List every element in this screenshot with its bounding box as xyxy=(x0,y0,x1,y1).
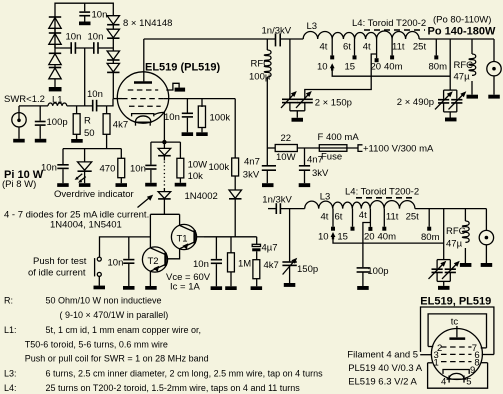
svg-text:40m: 40m xyxy=(384,62,403,73)
ground under 150p bottom xyxy=(284,283,296,287)
svg-text:L4: Toroid T200-2: L4: Toroid T200-2 xyxy=(345,187,419,198)
svg-text:6t: 6t xyxy=(343,42,351,53)
capacitor 100p xyxy=(35,106,46,139)
svg-text:22: 22 xyxy=(281,133,292,144)
svg-text:50: 50 xyxy=(84,128,95,139)
svg-text:4k7: 4k7 xyxy=(264,260,279,271)
tap 20 stub and square xyxy=(375,39,379,62)
svg-text:11t: 11t xyxy=(386,212,399,223)
diode chain left D1 (up) xyxy=(49,17,61,33)
choke RFC 100u xyxy=(264,39,271,148)
svg-text:T2: T2 xyxy=(148,256,159,267)
wire cathode tap xyxy=(155,112,165,142)
wire base node row xyxy=(204,236,257,238)
wire pin7 to inner box xyxy=(481,347,487,349)
capacitor 10n overdrive xyxy=(57,149,68,184)
svg-text:EL519, PL519: EL519, PL519 xyxy=(420,296,491,308)
svg-text:L1: L1 xyxy=(52,95,63,106)
ground under 100k g2 xyxy=(196,132,208,136)
LED overdrive indicator xyxy=(75,149,92,184)
svg-text:100µ: 100µ xyxy=(249,72,271,83)
tube grid g3 dashes xyxy=(129,105,161,107)
wire switch to collector rail xyxy=(100,237,151,257)
tube beam plate to ground step xyxy=(166,83,179,90)
ground under 4n7 right xyxy=(299,183,311,187)
wire top rail xyxy=(55,3,113,48)
wire T1 emitter to T2 base xyxy=(167,249,180,259)
resistor 1M xyxy=(228,237,235,286)
svg-text:of idle current: of idle current xyxy=(28,267,86,278)
pinout grid dashes row 3 xyxy=(441,361,472,363)
svg-text:L3:: L3: xyxy=(4,369,17,379)
wire series cap row left xyxy=(55,47,71,49)
svg-text:1: 1 xyxy=(434,357,439,368)
ground at tube beam plate xyxy=(175,88,186,92)
svg-text:10: 10 xyxy=(318,232,329,243)
wire collector rail xyxy=(150,213,179,215)
inductor L3/L4 top coil xyxy=(303,31,419,39)
capacitor 10n base node xyxy=(211,237,222,286)
transistor T1 xyxy=(171,224,196,249)
svg-text:Push for test: Push for test xyxy=(33,256,87,267)
ground under 100p xyxy=(35,139,47,143)
svg-text:4µ7: 4µ7 xyxy=(262,243,278,254)
diode idle chain D10 xyxy=(158,188,171,214)
svg-text:20: 20 xyxy=(364,232,375,243)
tap 40m stub and square xyxy=(390,39,394,59)
ground under 490p bottom xyxy=(438,286,450,290)
wire pin8 to lower box xyxy=(482,362,488,364)
resistor 22 supply xyxy=(267,145,319,152)
ground under g2 10n xyxy=(182,132,194,136)
capacitor 1n/3kV series top xyxy=(276,33,304,46)
ground under RFC 47u bottom xyxy=(460,263,472,267)
svg-text:5: 5 xyxy=(466,377,471,388)
ground under output connector top xyxy=(488,95,500,99)
diode chain right D8 (down) xyxy=(107,63,119,98)
variable capacitor 150p bottom xyxy=(282,209,297,283)
svg-text:Filament 4 and 5: Filament 4 and 5 xyxy=(347,350,418,361)
tap 80m stub and square xyxy=(434,39,438,59)
svg-text:10W: 10W xyxy=(188,160,208,171)
svg-text:25 turns on T200-2 toroid, 1.5: 25 turns on T200-2 toroid, 1.5-2mm wire,… xyxy=(46,383,301,393)
svg-text:1N4002: 1N4002 xyxy=(185,191,218,202)
inductor L3/L4 bottom coil xyxy=(305,201,415,209)
svg-text:T1: T1 xyxy=(177,234,188,245)
wire T2 emitter to ground xyxy=(149,271,151,286)
pinout cathode dome and filament pins 4,5 xyxy=(447,373,467,382)
svg-text:100k: 100k xyxy=(210,113,231,124)
wire anode line xyxy=(144,38,276,40)
ground under 470 xyxy=(116,183,128,187)
svg-text:47µ: 47µ xyxy=(446,239,463,250)
wire pin3 to outer box xyxy=(420,354,432,356)
variable capacitor 2x490p bottom xyxy=(429,209,460,286)
wire pin1 to lower box xyxy=(428,362,433,364)
svg-text:1n/3kV: 1n/3kV xyxy=(262,26,292,37)
ground under 100p bottom xyxy=(357,286,369,290)
ground under left diode chain xyxy=(49,87,62,91)
svg-text:(Po 80-110W): (Po 80-110W) xyxy=(433,15,491,26)
svg-text:10: 10 xyxy=(317,62,328,73)
tube beam plate bracket xyxy=(132,114,154,117)
svg-text:50 Ohm/10 W non inductieve: 50 Ohm/10 W non inductieve xyxy=(46,296,162,306)
svg-text:100p: 100p xyxy=(47,117,68,128)
wire overdrive row xyxy=(63,148,121,150)
svg-text:10n: 10n xyxy=(87,89,103,100)
wire T1 base lead xyxy=(196,236,204,238)
wire 150p pair to ground xyxy=(290,111,305,118)
svg-text:20: 20 xyxy=(371,62,382,73)
svg-text:RFC: RFC xyxy=(446,226,466,237)
svg-text:RFC: RFC xyxy=(454,60,474,71)
fuse F 400mA xyxy=(319,145,357,152)
svg-text:2 × 490p: 2 × 490p xyxy=(397,97,434,108)
capacitor 4n7 3kV right xyxy=(299,148,310,183)
svg-text:L1:: L1: xyxy=(4,325,17,335)
svg-text:2 × 150p: 2 × 150p xyxy=(315,98,352,109)
svg-text:80m: 80m xyxy=(429,62,448,73)
svg-text:1N4004, 1N5401: 1N4004, 1N5401 xyxy=(50,220,122,231)
tap 15 bottom stub and square xyxy=(351,209,355,231)
ground under 490p xyxy=(445,118,457,122)
toroid dashes bottom xyxy=(356,197,413,199)
wire selector from tap 20 bottom to 100p xyxy=(363,223,371,268)
svg-text:(Pi 8 W): (Pi 8 W) xyxy=(2,179,36,190)
diode chain left D3 (up) xyxy=(49,53,61,67)
svg-text:4n7: 4n7 xyxy=(307,155,323,166)
svg-text:4: 4 xyxy=(441,377,446,388)
pinout lower box xyxy=(428,363,488,389)
ground under 4k7 emitter xyxy=(251,286,263,290)
choke RFC 47u top xyxy=(469,39,476,95)
pinout anode bar xyxy=(449,337,465,340)
tap 15 stub and square xyxy=(353,39,357,59)
svg-text:Fuse: Fuse xyxy=(321,152,342,163)
svg-text:10n: 10n xyxy=(164,112,180,123)
capacitor 10n series row left xyxy=(71,42,75,54)
capacitor 10n series row right xyxy=(94,42,98,54)
plug arrow at tap 10 bottom xyxy=(331,232,444,243)
resistor 10W 10k xyxy=(177,142,184,183)
svg-text:47µ: 47µ xyxy=(454,72,471,83)
capacitor 10n series on main line xyxy=(93,100,107,112)
variable capacitor 150p A xyxy=(281,39,298,111)
resistor R 50 xyxy=(73,106,80,139)
switch S1 push for test xyxy=(95,257,102,276)
svg-text:11t: 11t xyxy=(392,42,405,53)
svg-text:3kV: 3kV xyxy=(243,170,260,181)
ground under 4n7 left xyxy=(262,183,274,187)
pinout grid dashes row 2 xyxy=(441,353,472,355)
ground under output connector bottom xyxy=(481,263,493,267)
resistor 4k7 emitter xyxy=(253,260,260,287)
svg-text:SWR<1.2: SWR<1.2 xyxy=(4,94,45,105)
svg-text:6 turns, 2.5 cm inner diameter: 6 turns, 2.5 cm inner diameter, 2 cm lon… xyxy=(46,369,324,379)
svg-text:+1100 V/300 mA: +1100 V/300 mA xyxy=(363,143,434,154)
svg-text:15: 15 xyxy=(337,232,348,243)
connector output bottom xyxy=(479,209,493,263)
svg-text:1n/3kV: 1n/3kV xyxy=(262,195,292,206)
svg-text:150p: 150p xyxy=(297,264,318,275)
ground under input connector xyxy=(13,139,25,143)
tube grid g1 dashes xyxy=(122,98,164,100)
svg-text:3kV: 3kV xyxy=(312,168,329,179)
svg-text:L4:: L4: xyxy=(4,383,17,393)
pinout outer box xyxy=(421,307,494,355)
svg-text:25t: 25t xyxy=(406,212,420,223)
variable capacitor 2x490p top xyxy=(435,39,466,118)
svg-text:Po 140-180W: Po 140-180W xyxy=(428,26,496,38)
tube cathode dome xyxy=(135,116,152,126)
ground under cathode 10n xyxy=(145,183,157,187)
svg-text:10n: 10n xyxy=(108,258,124,269)
svg-text:1M: 1M xyxy=(238,259,251,270)
svg-text:tc: tc xyxy=(451,316,459,327)
diode chain right D6 (down) xyxy=(107,29,119,51)
wire main line to grid riser xyxy=(107,99,113,106)
tube anode plate bar xyxy=(134,81,152,84)
tube envelope pinout xyxy=(431,329,482,380)
tap 10 stub and square xyxy=(330,39,334,59)
svg-text:Push or pull coil for SWR = 1: Push or pull coil for SWR = 1 on 28 MHz … xyxy=(25,354,209,364)
svg-text:8 × 1N4148: 8 × 1N4148 xyxy=(123,18,172,29)
svg-text:15: 15 xyxy=(345,62,356,73)
svg-text:80m: 80m xyxy=(421,232,440,243)
choke RFC 47u bottom xyxy=(462,209,469,263)
capacitor 100p bottom xyxy=(357,268,370,286)
wire dotted idle chain continuation xyxy=(163,162,165,189)
transistor T2 xyxy=(142,247,167,272)
tap 20 bottom stub and square xyxy=(368,209,372,231)
svg-text:10n: 10n xyxy=(66,32,82,43)
plug arrow at tap 10 xyxy=(330,63,451,76)
svg-text:PL519 40 V/0.3 A: PL519 40 V/0.3 A xyxy=(348,363,423,374)
svg-text:10n: 10n xyxy=(41,163,57,174)
wire grid entry xyxy=(113,98,122,100)
resistor 4k7 grid xyxy=(103,106,110,149)
svg-text:EL519 6.3 V/2 A: EL519 6.3 V/2 A xyxy=(348,376,417,387)
diode 1N4002 xyxy=(229,190,242,237)
svg-text:10n: 10n xyxy=(193,259,209,270)
capacitor 10n at switch xyxy=(123,237,134,286)
svg-text:4n7: 4n7 xyxy=(244,157,260,168)
pinout top cap lead xyxy=(456,326,458,337)
ground under 1M xyxy=(225,286,237,290)
svg-text:T50-6 toroid, 5-6 turns, 0.6 m: T50-6 toroid, 5-6 turns, 0.6 mm wire xyxy=(25,340,168,350)
ground under LED xyxy=(79,183,91,187)
wire bleeder to diode xyxy=(234,176,236,190)
ground under R50 xyxy=(71,139,83,143)
svg-text:R: R xyxy=(84,116,91,127)
svg-text:5t, 1 cm id, 1 mm enam copper: 5t, 1 cm id, 1 mm enam copper wire or, xyxy=(46,325,202,335)
ground under top 10n xyxy=(79,22,91,26)
svg-text:Overdrive indicator: Overdrive indicator xyxy=(54,189,134,200)
ground under switch xyxy=(94,286,106,290)
wire pin2 to inner box xyxy=(428,346,433,348)
svg-text:470: 470 xyxy=(100,164,116,175)
tap 10 bottom stub and square xyxy=(331,209,335,231)
wire bottom line after coil xyxy=(415,208,487,210)
svg-text:L4: Toroid T200-2: L4: Toroid T200-2 xyxy=(352,18,426,29)
pinout grid dashes row 1 xyxy=(441,346,472,348)
diode chain left D4 (up) xyxy=(49,68,61,88)
node cathode junction xyxy=(162,140,166,144)
capacitor 4n7 3kV left xyxy=(262,148,276,183)
wire main line L1 to cap xyxy=(67,105,93,107)
wire clamp mid tap to main line xyxy=(84,48,86,106)
svg-text:4t: 4t xyxy=(320,42,328,53)
ground under switch 10n xyxy=(123,286,135,290)
svg-text:10n: 10n xyxy=(130,164,146,175)
svg-text:6t: 6t xyxy=(335,212,343,223)
svg-text:40m: 40m xyxy=(378,232,397,243)
wire pin6 to outer box xyxy=(482,354,494,356)
svg-text:10k: 10k xyxy=(188,171,204,182)
svg-text:4t: 4t xyxy=(321,212,329,223)
ground under 10n overdrive xyxy=(57,183,68,187)
wire T1 collector lead xyxy=(179,214,181,225)
ground under RFC 47u top xyxy=(467,95,479,99)
tube anode top cap wire xyxy=(143,39,145,81)
variable capacitor 150p B xyxy=(296,91,313,111)
svg-text:R:: R: xyxy=(4,296,13,306)
capacitor 10n top middle xyxy=(79,3,90,21)
connector +1100V plug xyxy=(358,145,363,152)
connector J1 input xyxy=(12,106,26,139)
wire selector from tap 20 to 150p xyxy=(305,54,377,99)
toroid dashes top xyxy=(364,29,425,31)
wire g2 line right xyxy=(164,98,235,100)
svg-text:100k: 100k xyxy=(209,162,230,173)
capacitor 10n g2 xyxy=(182,99,193,133)
svg-text:10n: 10n xyxy=(92,10,108,21)
resistor 100k g2 xyxy=(198,99,205,133)
wire main input line xyxy=(19,105,48,107)
svg-text:100p: 100p xyxy=(367,266,388,277)
wire T2 collector lead xyxy=(149,214,151,247)
pinout inner box xyxy=(428,314,486,348)
svg-text:10n: 10n xyxy=(88,32,104,43)
diode chain right D5 (down) xyxy=(107,16,119,30)
svg-text:4k7: 4k7 xyxy=(113,120,128,131)
diode idle chain D9 xyxy=(158,142,171,160)
wire cathode row xyxy=(151,141,181,143)
svg-text:10W: 10W xyxy=(276,152,296,163)
svg-text:25t: 25t xyxy=(413,42,427,53)
svg-text:RFC: RFC xyxy=(251,59,271,70)
tube V1 envelope xyxy=(117,72,168,123)
arrow pointing at idle diodes xyxy=(138,195,154,208)
svg-text:Ic = 1A: Ic = 1A xyxy=(170,282,200,293)
capacitor 10n cathode xyxy=(145,142,156,183)
wire switch to ground xyxy=(98,276,100,285)
svg-text:4t: 4t xyxy=(359,210,367,221)
capacitor 4u7 polarized xyxy=(252,237,260,260)
connector output top xyxy=(487,39,501,95)
wire top line after coil xyxy=(419,38,494,40)
svg-text:L3: L3 xyxy=(307,21,318,32)
ground under 150p pair xyxy=(292,118,304,122)
wire g2 down xyxy=(234,99,236,158)
svg-text:4t: 4t xyxy=(363,42,371,53)
tap 80m bottom stub and square xyxy=(427,209,431,231)
resistor 100k bleeder xyxy=(232,158,239,176)
wire series cap row right xyxy=(98,47,113,49)
svg-text:F 400 mA: F 400 mA xyxy=(318,132,360,143)
capacitor 1n/3kV series bottom xyxy=(268,203,305,214)
diode chain right D7 (down) xyxy=(107,51,119,63)
ground under T2 xyxy=(145,286,157,290)
wire series cap row middle xyxy=(75,47,93,49)
ground under 10W 10k xyxy=(175,183,187,187)
tap 40m bottom stub and square xyxy=(382,209,386,231)
svg-text:EL519 (PL519): EL519 (PL519) xyxy=(145,62,221,74)
inductor L1 xyxy=(48,103,67,106)
ground under base 10n xyxy=(211,286,223,290)
diode chain left D2 (up) xyxy=(49,33,61,53)
tube grid g2 dashes xyxy=(128,89,158,91)
pinout beam bracket xyxy=(443,370,469,374)
svg-text:( 9-10 × 470/1W in parallel): ( 9-10 × 470/1W in parallel) xyxy=(60,310,169,320)
svg-text:9: 9 xyxy=(470,365,475,376)
resistor 470 xyxy=(118,149,125,184)
